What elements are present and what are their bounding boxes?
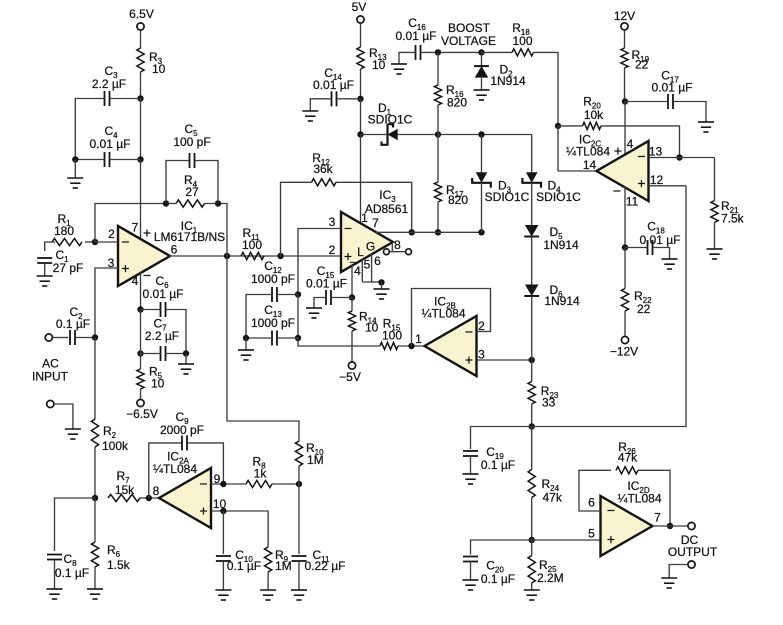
node R20/pin13 [676,154,682,160]
wire IC3 pin6 [362,254,371,282]
wire node to C19 [471,427,532,450]
wire R19 to C17 node [624,68,626,102]
wire R17 bottom [437,202,439,232]
node C2/pin3/R2 [92,334,98,340]
capacitor C19 [463,451,478,456]
svg-text:100 pF: 100 pF [173,135,210,149]
junction C7 left [137,350,143,356]
svg-text:0.1 µF: 0.1 µF [56,317,90,331]
ground C15 [306,308,322,318]
wire AC to C2 [53,337,68,339]
wire C5 right bracket [195,161,219,204]
wire R20 right [601,126,680,158]
svg-text:6: 6 [588,496,595,510]
svg-text:0.01 µF: 0.01 µF [143,287,184,301]
op-amp IC2C [597,141,649,201]
node pin56 gnd [378,279,384,285]
svg-text:0.1 µF: 0.1 µF [481,572,515,586]
wire 5V to R13 [360,24,362,48]
svg-text:−: − [143,267,151,283]
capacitor C4 [105,152,110,167]
wire D1 row to D3D4 [438,134,532,136]
wire AC bottom to ground [54,404,73,429]
wire R15 right [398,345,425,347]
svg-text:27: 27 [185,185,199,199]
capacitor C9 [182,435,187,450]
wire 12V to R19 [624,30,626,48]
node R20 left [555,123,561,129]
svg-text:12V: 12V [614,9,635,23]
wire pin10 row [211,511,268,547]
junction C7 right ground [183,350,189,356]
svg-text:−6.5V: −6.5V [126,407,158,421]
terminal pin8 b [406,249,412,255]
svg-text:AC: AC [42,357,59,371]
capacitor C17 [668,94,673,109]
wire pin13 row [649,157,715,159]
svg-text:−: − [607,502,615,518]
wire R18 to IC2C [534,52,559,126]
wire R22 top [624,248,626,289]
svg-text:27 pF: 27 pF [53,261,84,275]
wire pin2 [95,241,118,243]
op-amp IC2A [159,468,211,528]
svg-text:0.01 µF: 0.01 µF [313,78,354,92]
node A junction [137,95,143,101]
wire R14 top [351,298,353,312]
terminal -6.5V [137,399,144,406]
wire C13 ground stem [245,338,247,350]
wire 5V rail to IC3 pin1 [360,135,362,224]
wire C15 left to ground [314,298,326,309]
wire R3 to node A [140,72,142,99]
wire R7 right [140,497,159,499]
wire R2 to R7 node [94,447,96,498]
diode D5 [525,225,539,237]
capacitor C16 [416,45,421,60]
wire pin3 rail corner [298,338,380,346]
node pin3/D6/R23 [529,357,535,363]
svg-text:820: 820 [448,193,468,207]
node D2 [478,49,484,55]
svg-text:−: − [613,183,621,199]
svg-text:10k: 10k [584,108,604,122]
ground C17 [698,122,714,132]
wire R5 top [140,354,142,370]
svg-text:8: 8 [153,484,160,498]
junction R4/C5 left [163,200,169,206]
node R24/C20/R25/pin5 [529,537,535,543]
capacitor C11 [292,556,307,561]
wire gnd stem IC3 [381,282,383,289]
svg-text:¼TL084: ¼TL084 [617,492,661,506]
svg-text:SDIO1C: SDIO1C [368,113,413,127]
ground C16 [391,64,407,74]
wire R17 top [437,135,439,183]
svg-text:8: 8 [394,238,401,252]
svg-text:4: 4 [354,264,361,278]
svg-text:OUTPUT: OUTPUT [668,545,718,559]
wire R16 bottom [437,105,439,135]
wire to ground C3C4 [74,160,76,179]
wire C10 stem [222,511,224,554]
resistor R1 [52,238,82,245]
resistor R9 [265,547,272,572]
wire C12 left bracket [246,295,272,339]
wire R20 left [558,125,583,127]
svg-text:10: 10 [372,58,386,72]
wire R1 right [85,241,95,243]
wire R12 left [281,182,312,256]
wire node to C20 [471,540,532,555]
svg-text:7: 7 [372,216,379,230]
svg-text:100: 100 [382,329,402,343]
svg-text:+: + [614,143,622,159]
svg-text:1: 1 [415,332,422,346]
svg-text:1k: 1k [254,467,268,481]
wire R24 top [531,427,533,470]
svg-text:5: 5 [364,258,371,272]
svg-text:6: 6 [171,243,178,257]
resistor R8 [246,480,272,487]
resistor R22 [621,289,628,312]
svg-text:6.5V: 6.5V [129,7,154,21]
wire IC2B feedback [412,289,491,347]
wire C18 right to ground [653,248,670,260]
wire R25 top [531,540,533,556]
wire R4 right to output [205,204,228,257]
wire R16 top [437,52,439,85]
capacitor C8 [47,555,62,560]
svg-text:10: 10 [151,377,165,391]
ground C20 [463,580,479,590]
svg-text:0.01 µF: 0.01 µF [306,277,347,291]
wire node B to IC1 pin7 [140,160,142,240]
svg-text:22: 22 [637,302,651,316]
wire R9 ground stem [267,572,269,590]
wire pin3 to C2 node [95,268,118,338]
capacitor C20 [463,557,478,562]
terminal 6.5V [137,23,144,30]
diode D6 [525,285,539,297]
node C18 [622,244,628,250]
node pin2 junction [92,239,98,245]
wire D6 to node [531,296,533,360]
op-amp IC2D [601,496,653,556]
wire R13 to C14 node [360,69,362,99]
wire C2 to node [75,337,95,339]
wire IC3 pin5 [361,260,363,283]
wire C10 ground stem [222,561,224,590]
node output junction R4 [224,253,230,259]
svg-text:13: 13 [649,145,663,159]
ground C11 [291,590,307,600]
svg-text:36k: 36k [313,162,333,176]
svg-text:10: 10 [152,62,166,76]
svg-text:1N914: 1N914 [544,294,580,308]
svg-text:+: + [199,503,207,519]
wire R5 to terminal [140,389,142,399]
node B junction [137,156,143,162]
wire C5 left bracket [166,161,189,204]
wire R6 to ground [94,567,96,589]
wire R23 bottom [531,404,533,427]
wire IC2B pin3 out [477,359,532,361]
terminal -5V [348,362,355,369]
wire C19 ground stem [470,456,472,474]
wire D2 to R18 [482,51,513,53]
wire DC gnd [669,565,687,579]
wire to C8 [55,498,96,551]
wire C18 left [625,247,648,249]
wire pin12 row [649,185,687,187]
wire C20 ground stem [470,562,472,581]
ground R9 [260,590,276,600]
node C12 right [295,291,301,297]
wire R12 right [336,182,412,232]
resistor R16 [434,85,441,105]
wire R22 to -12V [624,311,626,336]
terminal AC input top [45,334,52,341]
svg-text:¼TL084: ¼TL084 [566,145,610,159]
wire C3 right [110,98,141,100]
svg-text:12: 12 [650,173,664,187]
wire C6C7 left bracket [140,310,142,354]
ground C3/C4 [67,178,83,188]
svg-text:22: 22 [635,58,649,72]
resistor R25 [528,556,535,584]
wire C4 right [110,159,141,161]
svg-text:2.2 µF: 2.2 µF [92,77,126,91]
svg-text:1000 pF: 1000 pF [251,272,295,286]
wire C11 stem [298,484,300,554]
resistor R24 [528,470,535,498]
svg-text:1M: 1M [275,559,292,573]
wire pin11 down [624,187,626,247]
wire D1 left [361,134,388,136]
wire 12V rail to pin4 [624,102,626,155]
svg-text:−: − [344,220,352,236]
wire C13 left lead [246,337,272,339]
wire pin5 row [532,539,601,541]
wire D3 bottom [481,183,483,233]
capacitor C14 [332,91,337,106]
wire D3 top [481,135,483,173]
wire C7 ground stem [185,354,187,365]
svg-text:SDIO1C: SDIO1C [536,190,581,204]
wire R4 leads [166,203,176,205]
svg-text:+: + [465,352,473,368]
svg-text:¼TL084: ¼TL084 [153,462,197,476]
ground R25 [524,590,540,600]
wire C13 right lead [277,337,298,339]
svg-text:¼TL084: ¼TL084 [421,307,465,321]
resistor R15 [380,342,398,349]
wire C16 right to D2 [421,51,482,53]
svg-text:BOOST: BOOST [448,21,491,35]
junction C6 left [137,306,143,312]
wire C6 left lead [141,309,161,311]
terminal DC out top [688,522,695,529]
svg-text:2.2M: 2.2M [537,571,564,585]
wire C7 right [166,353,187,355]
wire pin8 link [389,251,406,253]
ground C14 [302,111,318,121]
ground D2 [474,90,490,100]
node output junction R12 [277,253,283,259]
ground C13 [238,350,254,360]
wire C12 right lead [277,294,298,296]
svg-text:0.1 µF: 0.1 µF [55,566,89,580]
svg-text:6: 6 [374,254,381,268]
resistor R4 [176,200,205,207]
svg-text:+: + [637,175,645,191]
resistor R19 [621,48,628,68]
svg-text:2000 pF: 2000 pF [160,423,204,437]
wire C17 right to ground [673,102,706,123]
wire node to R23 [531,360,533,382]
wire C15 right [331,297,352,299]
ground C10 [215,590,231,600]
wire C9 loop left [149,443,182,498]
wire IC3 pin7 row [376,231,482,233]
ground R21 [707,249,723,259]
svg-text:47k: 47k [543,491,563,505]
resistor R2 [91,419,98,447]
wire D4 to D5 [531,183,533,225]
wire D5 to D6 [531,237,533,285]
diode D4 SDIO1C [526,172,538,183]
resistor R7 [108,494,140,501]
wire pin2 up to R4 row [95,204,166,243]
op-amp IC1 [118,226,170,286]
node C13 right [295,335,301,341]
svg-text:7: 7 [654,511,661,525]
svg-text:100: 100 [512,34,532,48]
ground R6 [87,589,103,599]
wire R26 right down [638,470,670,526]
wire C3 left bracket [75,99,104,160]
svg-text:1000 pF: 1000 pF [251,316,295,330]
svg-text:2: 2 [108,227,115,241]
capacitor C5 [190,153,195,168]
svg-text:+: + [607,531,615,547]
svg-text:11: 11 [626,195,639,209]
wire C14 right [337,98,361,100]
junction C3/C4 left [72,156,78,162]
svg-text:1M: 1M [307,453,324,467]
node C15/R14 [349,294,355,300]
node D1 right [435,131,441,137]
wire pin3 rail down [297,295,299,339]
terminal pin8 a [384,249,390,255]
terminal -12V [621,336,628,343]
wire to IC2C apex [558,126,597,171]
diode D2 [475,66,489,78]
svg-text:−: − [637,148,645,164]
svg-text:−: − [199,476,207,492]
wire R25 ground stem [531,583,533,590]
wire C4 left [75,159,104,161]
wire R24 bottom [531,498,533,541]
ground DC output [661,578,677,588]
ground C19 [463,474,479,484]
svg-text:G: G [366,240,375,254]
capacitor C15 [326,290,331,305]
diode D3 SDIO1C [476,172,488,183]
svg-text:0.01 µF: 0.01 µF [90,137,131,151]
svg-text:SDIO1C: SDIO1C [485,190,530,204]
svg-text:0.01 µF: 0.01 µF [396,29,437,43]
svg-text:100: 100 [242,238,262,252]
capacitor C12 [272,287,277,302]
capacitor C13 [272,331,277,346]
capacitor C10 [216,556,231,561]
svg-text:15k: 15k [115,483,135,497]
node IC2D out [667,523,673,529]
node IC2A pin8 [146,495,152,501]
comparator IC3 AD8561 [341,212,393,272]
resistor R11 [241,252,264,259]
junction R4/C5 right [215,200,221,206]
resistor R23 [528,382,535,405]
node C16/R16 [435,49,441,55]
svg-text:3: 3 [329,215,336,229]
node pin9 [220,481,226,487]
svg-text:33: 33 [542,396,556,410]
wire pin8 stub [391,242,393,252]
capacitor C6 [161,302,166,317]
resistor R3 [137,48,144,72]
wire node A to C4 node [140,99,142,160]
node C14 [357,96,363,102]
wire pin6 loop [579,470,611,511]
svg-text:LM6171B/NS: LM6171B/NS [154,230,225,244]
diode D1 SDIO1C [388,129,398,141]
ground C18 [662,259,678,269]
resistor R12 [312,179,337,186]
ground C1 [37,276,53,286]
wire pin4 down [140,273,142,310]
resistor R26 [616,467,638,474]
svg-text:VOLTAGE: VOLTAGE [441,34,496,48]
wire D1 right [397,134,438,136]
wire R21 ground stem [714,223,716,250]
op-amp IC2B [425,316,477,376]
wire output node down [227,256,299,441]
svg-text:4: 4 [132,274,139,288]
resistor R18 [512,49,534,56]
svg-text:AD8561: AD8561 [365,202,409,216]
svg-text:−: − [465,324,473,340]
capacitor C18 [648,240,653,255]
svg-text:−5V: −5V [339,370,361,384]
svg-text:0.01 µF: 0.01 µF [640,233,681,247]
resistor R5 [137,369,144,389]
wire IC3 pin3 [298,229,341,295]
node R8/R10/C11 [296,481,302,487]
wire C14 left to ground [310,99,331,111]
wire C14 node to D1 node [360,99,362,135]
svg-text:0.01 µF: 0.01 µF [652,81,693,95]
resistor R21 [711,201,718,223]
svg-text:100k: 100k [102,439,129,453]
node D3 top [478,131,484,137]
node C17 [622,98,628,104]
wire IC2D output [653,525,688,527]
wire C16 left to ground [399,52,416,64]
wire 6.5V to R3 [140,31,142,49]
